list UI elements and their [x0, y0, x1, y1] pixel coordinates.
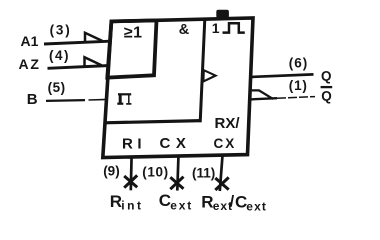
svg-text:(9): (9): [103, 163, 120, 178]
svg-text:≥1: ≥1: [124, 24, 143, 41]
svg-text:C: C: [159, 191, 171, 210]
pin stub 10 (Cext): [177, 155, 178, 191]
svg-text:RI: RI: [122, 135, 146, 152]
svg-text:&: &: [179, 22, 190, 38]
svg-text:B: B: [27, 91, 38, 108]
pulse symbol of monostable: [223, 23, 245, 32]
svg-text:(1): (1): [289, 78, 308, 93]
svg-text:(3): (3): [50, 23, 72, 38]
svg-text:A1: A1: [21, 33, 39, 49]
pin stub 9 (Rint): [129, 156, 133, 191]
wire input A1: [44, 41, 110, 44]
svg-text:int: int: [121, 199, 143, 213]
svg-text:1: 1: [212, 20, 220, 36]
pin stub 11 (Rext/Cext): [220, 154, 223, 191]
AND section bottom edge: [104, 121, 201, 123]
polarity wedge on Qbar output: [252, 90, 274, 99]
OR block box (>=1 section): [107, 20, 156, 77]
svg-text:RX/: RX/: [215, 115, 241, 132]
IC main outline U1: [103, 18, 253, 158]
non-logic X on pin 10: [170, 177, 183, 190]
wire output Q: [250, 74, 314, 77]
non-logic X on pin 9: [124, 175, 137, 187]
ink smudge on top edge: [216, 10, 229, 18]
polarity wedge on AZ: [85, 57, 102, 67]
svg-text:ext: ext: [170, 198, 193, 212]
svg-text:ext: ext: [246, 200, 267, 214]
svg-text:R: R: [110, 192, 122, 211]
svg-text:Q: Q: [321, 68, 332, 83]
svg-text:AZ: AZ: [19, 56, 41, 72]
svg-text:(11): (11): [192, 165, 215, 180]
svg-text:CX: CX: [160, 135, 192, 152]
svg-text:(6): (6): [289, 56, 309, 71]
non-logic X on pin 11: [215, 177, 228, 190]
svg-text:CX: CX: [214, 136, 237, 151]
svg-text:R: R: [201, 193, 213, 212]
svg-text:(5): (5): [48, 80, 66, 95]
edge-trigger triangle on divider: [203, 70, 215, 81]
wire input B: [46, 99, 85, 102]
wire output Qbar: [250, 98, 277, 99]
svg-text:Q: Q: [321, 89, 332, 104]
polarity wedge on A1: [85, 33, 103, 43]
divider between AND and monostable sections: [200, 19, 205, 122]
pulse PI symbol near B input: [117, 94, 131, 104]
svg-text:(10): (10): [142, 164, 168, 179]
svg-text:(4): (4): [49, 48, 70, 63]
wire input AZ: [48, 66, 111, 69]
